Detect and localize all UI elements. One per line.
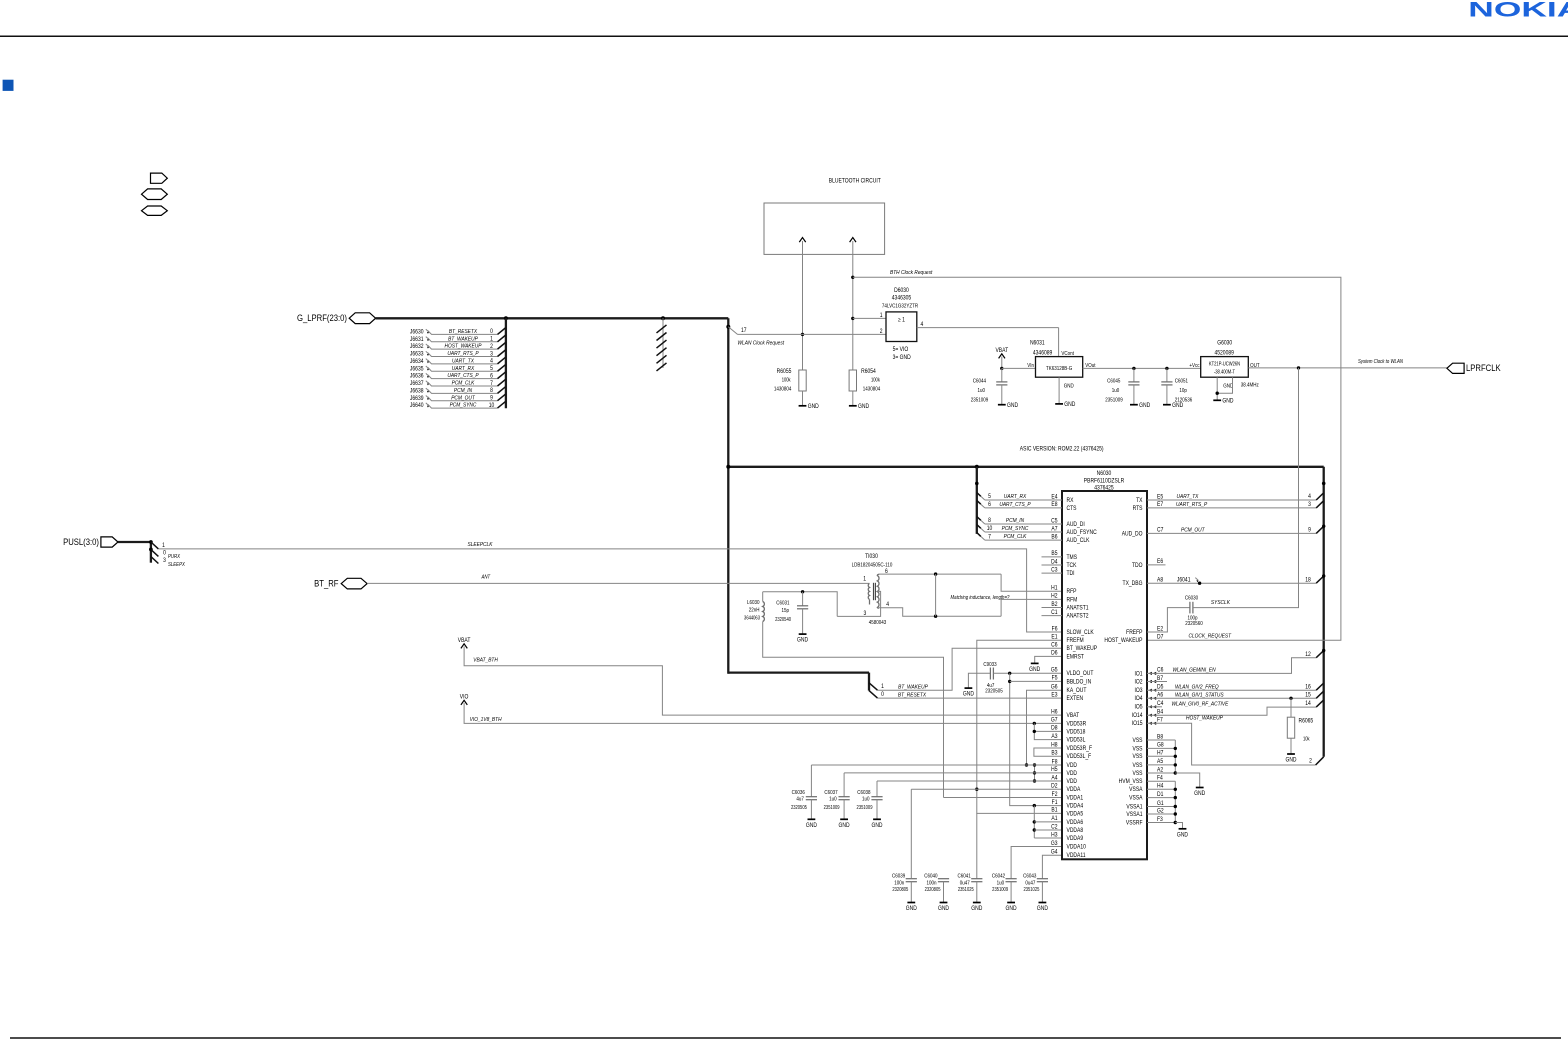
wire BT_RESETX (bit0) to EXTEN (E3) xyxy=(878,697,1063,699)
svg-text:R6065: R6065 xyxy=(1299,718,1314,725)
svg-text:E8: E8 xyxy=(1051,502,1057,509)
svg-text:VSS: VSS xyxy=(1133,762,1143,769)
wire G_LPRF ripper vertical bus xyxy=(505,318,507,408)
svg-text:VSS: VSS xyxy=(1133,754,1143,761)
svg-text:HOST_WAKEUP: HOST_WAKEUP xyxy=(1104,638,1142,645)
svg-text:PBRF6110DZSLR: PBRF6110DZSLR xyxy=(1084,478,1124,485)
svg-text:D7: D7 xyxy=(1157,634,1163,641)
wire VDD53R/VDD518/VDD53L bracket xyxy=(1034,723,1062,739)
svg-text:6: 6 xyxy=(988,502,991,509)
svg-text:EXTEN: EXTEN xyxy=(1067,696,1084,703)
svg-text:GND: GND xyxy=(938,906,949,913)
wire BTH Clock Request to CLOCK_REQUEST (D7) xyxy=(851,276,854,279)
svg-text:IO5: IO5 xyxy=(1134,704,1142,711)
svg-text:CLOCK_REQUEST: CLOCK_REQUEST xyxy=(1188,633,1231,640)
svg-text:ANATST1: ANATST1 xyxy=(1067,605,1089,612)
svg-text:1: 1 xyxy=(881,684,884,691)
svg-text:G_LPRF(23:0): G_LPRF(23:0) xyxy=(297,312,347,323)
svg-text:GND: GND xyxy=(1007,402,1018,409)
svg-text:BT_RESETX: BT_RESETX xyxy=(449,329,477,336)
wire TDO stub (E6) xyxy=(1147,564,1166,566)
pin C5 AUD_DI xyxy=(985,523,1062,525)
wire G_LPRF bus top horizontal (y=467) xyxy=(728,466,1323,468)
ground below R6054 xyxy=(849,405,857,407)
ground below N6031 xyxy=(1055,403,1063,405)
svg-text:CTS: CTS xyxy=(1067,505,1077,512)
arrow into BT block (right) xyxy=(850,238,856,243)
svg-text:VDDA11: VDDA11 xyxy=(1067,853,1086,860)
wire bus entries vertical at x=977 xyxy=(976,467,978,534)
svg-text:VDDA8: VDDA8 xyxy=(1067,828,1084,835)
svg-text:5= VIO: 5= VIO xyxy=(893,346,909,353)
svg-text:D2: D2 xyxy=(1051,783,1057,790)
wire matching network left shunt xyxy=(935,574,937,616)
svg-text:VIn: VIn xyxy=(1027,363,1034,370)
svg-text:BLUETOOTH CIRCUIT: BLUETOOTH CIRCUIT xyxy=(829,178,882,185)
svg-text:AUD_CLK: AUD_CLK xyxy=(1067,538,1090,545)
wire UART_TX to bus bit 4 xyxy=(1147,499,1316,501)
svg-text:System Clock to WLAN: System Clock to WLAN xyxy=(1358,359,1403,366)
wire FREFM (E1) to VDDA rows xyxy=(977,640,1062,813)
svg-text:F1: F1 xyxy=(1052,800,1058,807)
ground below C9033 xyxy=(965,687,973,689)
svg-text:VDDA5: VDDA5 xyxy=(1067,811,1084,818)
transformer open stub (unused pin) xyxy=(869,599,871,604)
svg-text:KA_OUT: KA_OUT xyxy=(1067,688,1087,695)
pin C1 ANATST2 xyxy=(1042,615,1063,617)
ground below C6042 xyxy=(1007,902,1015,904)
svg-text:1: 1 xyxy=(863,576,866,583)
svg-text:VDD518: VDD518 xyxy=(1067,729,1086,736)
svg-text:GND: GND xyxy=(1006,906,1017,913)
svg-text:HOST_WAKEUP: HOST_WAKEUP xyxy=(445,343,482,350)
svg-text:10: 10 xyxy=(987,526,993,533)
svg-text:VDDA9: VDDA9 xyxy=(1067,836,1084,843)
svg-text:LDB18204505C-110: LDB18204505C-110 xyxy=(852,562,893,569)
svg-text:RFM: RFM xyxy=(1067,597,1078,604)
svg-text:VSS: VSS xyxy=(1133,738,1143,745)
svg-text:UART_RX: UART_RX xyxy=(452,365,475,372)
svg-text:R6054: R6054 xyxy=(861,369,876,376)
svg-text:4520089: 4520089 xyxy=(1214,350,1233,357)
pin E4 RX xyxy=(985,499,1062,501)
svg-text:EMRST: EMRST xyxy=(1067,654,1085,661)
svg-text:VSSRF: VSSRF xyxy=(1126,820,1143,827)
svg-text:C5: C5 xyxy=(1051,518,1057,525)
svg-text:VBAT_BTH: VBAT_BTH xyxy=(473,657,498,664)
wire BT block right arrow down through BTH/pin1 junctions to R6054 xyxy=(852,241,854,370)
svg-text:IO1: IO1 xyxy=(1134,671,1142,678)
svg-text:J6635: J6635 xyxy=(410,366,424,373)
svg-text:BT_WAKEUP: BT_WAKEUP xyxy=(898,684,928,691)
bus entry bit 7 PCM_CLK xyxy=(977,533,981,537)
svg-text:3: 3 xyxy=(490,351,493,358)
svg-text:D6030: D6030 xyxy=(894,287,909,294)
svg-text:C6041: C6041 xyxy=(958,873,971,880)
svg-text:2320540: 2320540 xyxy=(775,617,791,622)
wire IO1 WLAN_GEMINI_EN to bus bit 12 xyxy=(1147,658,1316,674)
svg-text:GND: GND xyxy=(1029,667,1040,674)
pin E8 CTS xyxy=(985,507,1062,509)
wire VDD row H5 from C6037 xyxy=(844,772,1062,774)
wire C6039 riser to VDDA row xyxy=(910,789,912,878)
svg-text:9: 9 xyxy=(1308,527,1311,534)
bus entry bit 5 UART_RX xyxy=(977,493,981,497)
svg-text:LPRFCLK: LPRFCLK xyxy=(1466,362,1501,373)
wire VDDA10 (G3) from C6042 xyxy=(1011,847,1062,879)
svg-text:VDD: VDD xyxy=(1067,779,1078,786)
svg-text:NOKIA: NOKIA xyxy=(1468,0,1568,22)
svg-text:7: 7 xyxy=(988,534,991,541)
wire WLAN Clock Request (bus bit 17) xyxy=(728,327,737,335)
svg-text:10p: 10p xyxy=(1179,387,1187,394)
svg-text:VSSA: VSSA xyxy=(1129,795,1143,802)
svg-text:WLAN_GIV2_FREQ: WLAN_GIV2_FREQ xyxy=(1175,684,1219,691)
svg-text:B2: B2 xyxy=(1051,601,1057,608)
svg-text:2351009: 2351009 xyxy=(1105,397,1123,404)
wire VDD row F8 from C6036 xyxy=(811,764,1062,766)
svg-text:GND: GND xyxy=(1172,402,1183,409)
svg-text:C6031: C6031 xyxy=(776,600,789,607)
capacitor C6045 1u0 xyxy=(1133,368,1135,382)
svg-text:0: 0 xyxy=(490,329,493,336)
svg-text:C6036: C6036 xyxy=(792,790,805,797)
svg-text:GND: GND xyxy=(1037,906,1048,913)
svg-text:14: 14 xyxy=(1305,701,1311,708)
capacitor C6042 1u0 xyxy=(1006,878,1017,880)
svg-text:TK63128B-G: TK63128B-G xyxy=(1046,365,1072,372)
wire L6030 bottom to C6040/VDDA1 vertical xyxy=(763,622,944,798)
svg-text:PCM_SYNC: PCM_SYNC xyxy=(1002,526,1029,533)
wire G_LPRF bus right vertical (x=1324) xyxy=(1323,467,1325,757)
svg-text:HVM_VSS: HVM_VSS xyxy=(1119,779,1143,786)
wire IO14 HOST_WAKEUP to bus bit 14 xyxy=(1147,707,1316,715)
wire BT_WAKEUP (bit1) to pin C6 xyxy=(878,648,1063,690)
wire VDD53R_F/VDD53L_F bracket xyxy=(1034,748,1062,756)
svg-text:2320505: 2320505 xyxy=(985,688,1003,695)
wire VDD row A4 from C6038 xyxy=(877,780,1062,782)
svg-text:1: 1 xyxy=(880,312,883,319)
svg-text:GND: GND xyxy=(1139,402,1150,409)
wire BBLDO_IN row xyxy=(1010,680,1062,682)
svg-text:GND: GND xyxy=(808,404,819,411)
svg-text:2320505: 2320505 xyxy=(791,805,807,810)
svg-text:B6: B6 xyxy=(1051,534,1057,541)
pin bidirectional marker xyxy=(1149,714,1157,717)
svg-text:UART_CTS_P: UART_CTS_P xyxy=(999,502,1031,509)
wire transformer pin3 to L6030/C6031 node xyxy=(763,591,881,616)
wire matching top to RFP (H1) xyxy=(1001,574,1062,591)
svg-text:Matching inductance, length=?: Matching inductance, length=? xyxy=(951,595,1010,602)
svg-text:4: 4 xyxy=(1308,494,1311,501)
ground below C6037 xyxy=(840,818,848,820)
svg-text:1430804: 1430804 xyxy=(863,386,881,393)
wire VDDA1 row (F2) from C6040 xyxy=(944,797,1063,799)
svg-text:UART_RTS_P: UART_RTS_P xyxy=(447,351,479,358)
svg-text:2320560: 2320560 xyxy=(1185,621,1203,628)
page bottom border line xyxy=(10,1037,1561,1039)
svg-text:VDDA4: VDDA4 xyxy=(1067,803,1084,810)
svg-text:J6634: J6634 xyxy=(410,359,424,366)
wire G6030 GND pins to ground xyxy=(1217,377,1232,400)
svg-text:F6: F6 xyxy=(1052,626,1058,633)
capacitor C6030 100p (series) xyxy=(1189,602,1191,614)
ground below C6045 xyxy=(1130,404,1138,406)
svg-text:6: 6 xyxy=(490,373,493,380)
legend input-port pentagon symbol xyxy=(151,173,168,183)
pin bidirectional marker xyxy=(1149,672,1157,675)
svg-text:VDD53R: VDD53R xyxy=(1067,721,1087,728)
svg-text:C9033: C9033 xyxy=(983,662,996,669)
svg-text:PCM_CLK: PCM_CLK xyxy=(1004,534,1027,541)
wire VDDA bracket F1..H3 xyxy=(1033,806,1035,838)
svg-text:N6031: N6031 xyxy=(1030,340,1045,347)
svg-text:SLEEPCLK: SLEEPCLK xyxy=(467,542,492,549)
ground below C6041 xyxy=(973,902,981,904)
svg-text:B1: B1 xyxy=(1051,807,1057,814)
svg-text:BT_RESETX: BT_RESETX xyxy=(898,692,926,699)
svg-text:2351009: 2351009 xyxy=(857,805,873,810)
svg-text:RFP: RFP xyxy=(1067,589,1077,596)
svg-text:VDDA: VDDA xyxy=(1067,787,1081,794)
svg-text:ASIC VERSION: ROM2.22 (4376425: ASIC VERSION: ROM2.22 (4376425) xyxy=(1020,446,1104,453)
svg-text:GND: GND xyxy=(858,404,869,411)
wire VDD bracket F8/H5/A4 xyxy=(1034,765,1036,781)
svg-text:VSSA: VSSA xyxy=(1129,787,1143,794)
svg-text:VLDO_OUT: VLDO_OUT xyxy=(1067,671,1094,678)
capacitor C6031 15p xyxy=(802,592,804,606)
svg-text:BT_RF: BT_RF xyxy=(314,578,338,589)
svg-text:UART_CTS_P: UART_CTS_P xyxy=(447,373,479,380)
wire PUSL bus stub xyxy=(118,541,151,543)
wire VDDA8 row xyxy=(1034,829,1062,831)
bus entry bit 1 SLEEPCLK xyxy=(151,542,159,549)
page top border line xyxy=(0,35,1568,37)
ground below C6043 xyxy=(1039,902,1047,904)
svg-text:2351009: 2351009 xyxy=(992,886,1008,891)
svg-text:1: 1 xyxy=(490,336,493,343)
svg-text:9: 9 xyxy=(490,395,493,402)
wire gate pin1 from junction xyxy=(851,317,854,320)
svg-text:J6631: J6631 xyxy=(410,336,424,343)
svg-text:TX: TX xyxy=(1136,498,1143,505)
svg-text:12: 12 xyxy=(1305,651,1311,658)
wire UART_RTS_P to bus bit 3 xyxy=(1147,507,1316,509)
svg-text:≥ 1: ≥ 1 xyxy=(898,317,905,324)
svg-text:AUD_DI: AUD_DI xyxy=(1067,522,1086,529)
svg-text:22nH: 22nH xyxy=(749,607,760,614)
svg-text:N6030: N6030 xyxy=(1097,471,1112,478)
svg-text:UART_RTS_P: UART_RTS_P xyxy=(1176,502,1208,509)
wire oscillator OUT / System Clock to WLAN xyxy=(1248,367,1447,369)
wire VDDA9 row xyxy=(1034,837,1062,839)
blue section square xyxy=(3,80,14,91)
svg-text:GND: GND xyxy=(906,906,917,913)
svg-text:1430804: 1430804 xyxy=(774,386,792,393)
pin bidirectional marker xyxy=(1149,705,1157,708)
svg-text:0: 0 xyxy=(163,550,166,557)
svg-text:3644063: 3644063 xyxy=(744,615,760,620)
svg-text:4: 4 xyxy=(490,358,493,365)
svg-text:A3: A3 xyxy=(1051,734,1057,741)
svg-text:GND: GND xyxy=(797,637,808,644)
svg-text:J6638: J6638 xyxy=(410,388,424,395)
ground below C6031 xyxy=(799,633,807,635)
bus entry bit 3 SLEEPX xyxy=(151,557,159,564)
svg-text:GND: GND xyxy=(1064,383,1074,390)
svg-text:VSS: VSS xyxy=(1133,771,1143,778)
svg-text:PCM_IN: PCM_IN xyxy=(1006,518,1024,525)
svg-text:-38.400M-T: -38.400M-T xyxy=(1214,369,1235,374)
svg-text:2351025: 2351025 xyxy=(1023,886,1039,891)
svg-text:J6636: J6636 xyxy=(410,373,424,380)
svg-text:VDD53L_F: VDD53L_F xyxy=(1067,754,1092,761)
svg-text:15p: 15p xyxy=(781,608,789,615)
svg-text:4346305: 4346305 xyxy=(892,295,911,302)
svg-text:IO4: IO4 xyxy=(1134,696,1142,703)
svg-text:10: 10 xyxy=(489,403,495,410)
svg-text:WLAN_GEMINI_EN: WLAN_GEMINI_EN xyxy=(1173,667,1216,674)
svg-text:GND: GND xyxy=(1222,398,1233,405)
node LPRFCLK output port xyxy=(1447,363,1464,373)
svg-text:G4: G4 xyxy=(1051,849,1058,856)
capacitor C6036 4u7 xyxy=(810,765,812,797)
svg-text:H3: H3 xyxy=(1051,832,1057,839)
pin A7 AUD_FSYNC xyxy=(985,531,1062,533)
wire EMRST (D6) to ground xyxy=(1035,656,1062,663)
svg-text:TMS: TMS xyxy=(1067,554,1078,561)
wire R6054 to ground xyxy=(852,391,854,406)
svg-text:VDD53R_F: VDD53R_F xyxy=(1067,746,1093,753)
svg-text:GND: GND xyxy=(1194,791,1205,798)
svg-text:UART_TX: UART_TX xyxy=(452,358,474,365)
svg-text:74LVC1G32YZTR: 74LVC1G32YZTR xyxy=(882,303,919,310)
wire IO2 stub (B7) xyxy=(1147,681,1167,683)
svg-text:8: 8 xyxy=(988,518,991,525)
svg-text:2351009: 2351009 xyxy=(824,805,840,810)
svg-text:H1: H1 xyxy=(1051,585,1057,592)
svg-text:16: 16 xyxy=(1305,684,1311,691)
ground below C6051 xyxy=(1163,404,1171,406)
wire VBAT to N6031 VIn xyxy=(1002,367,1036,369)
svg-text:C6051: C6051 xyxy=(1175,378,1188,385)
svg-text:C1: C1 xyxy=(1051,610,1057,617)
svg-text:HOST_WAKEUP: HOST_WAKEUP xyxy=(1186,715,1223,722)
svg-text:VCont: VCont xyxy=(1061,351,1074,358)
svg-text:PCM_SYNC: PCM_SYNC xyxy=(450,402,477,409)
svg-text:BT_WAKEUP: BT_WAKEUP xyxy=(448,336,478,343)
svg-text:A7: A7 xyxy=(1051,526,1057,533)
svg-text:A4: A4 xyxy=(1051,775,1057,782)
svg-text:1u0: 1u0 xyxy=(829,796,837,803)
svg-text:E3: E3 xyxy=(1051,692,1057,699)
wire KA_OUT (G6) down to VDD row xyxy=(1027,690,1063,765)
svg-text:L6030: L6030 xyxy=(747,599,760,606)
svg-text:PURX: PURX xyxy=(168,554,181,561)
svg-text:BT_WAKEUP: BT_WAKEUP xyxy=(1067,646,1098,653)
svg-text:TX_DBG: TX_DBG xyxy=(1123,581,1143,588)
svg-text:SYSCLK: SYSCLK xyxy=(1211,600,1230,607)
resistor R6054 100k xyxy=(849,370,856,391)
svg-text:D4: D4 xyxy=(1051,559,1057,566)
svg-text:RX: RX xyxy=(1067,498,1074,505)
svg-text:PCM_CLK: PCM_CLK xyxy=(452,380,475,387)
svg-text:FREFP: FREFP xyxy=(1126,630,1143,637)
svg-text:C6030: C6030 xyxy=(1185,595,1198,602)
pin D4 TCK xyxy=(1042,564,1063,566)
capacitor C6043 0u47 xyxy=(1037,878,1048,880)
svg-text:8: 8 xyxy=(490,388,493,395)
svg-text:VBAT: VBAT xyxy=(1067,713,1080,720)
pin bidirectional marker xyxy=(1149,697,1157,700)
svg-text:WLAN_GIV1_STATUS: WLAN_GIV1_STATUS xyxy=(1175,692,1224,699)
svg-text:WLAN_GIV0_RF_ACTIVE: WLAN_GIV0_RF_ACTIVE xyxy=(1172,701,1229,708)
svg-text:IO3: IO3 xyxy=(1134,688,1142,695)
bluetooth circuit block box xyxy=(764,203,885,254)
svg-text:C6040: C6040 xyxy=(924,873,937,880)
svg-text:4: 4 xyxy=(886,601,889,608)
svg-text:IO2: IO2 xyxy=(1134,679,1142,686)
capacitor C6039 100n xyxy=(906,878,917,880)
svg-text:J6640: J6640 xyxy=(410,403,424,410)
svg-text:C3: C3 xyxy=(1051,567,1057,574)
capacitor C6040 100n xyxy=(938,878,949,880)
ground below C6039 xyxy=(907,902,915,904)
legend output-port hexagon symbol xyxy=(142,206,168,215)
svg-text:TCK: TCK xyxy=(1067,563,1077,570)
svg-text:GND: GND xyxy=(1064,402,1075,409)
bus entry bit 10 PCM_SYNC xyxy=(977,525,981,529)
svg-text:C6045: C6045 xyxy=(1107,378,1120,385)
wire C6041 riser xyxy=(976,813,978,878)
wire IO5 stub (C4) xyxy=(1147,706,1162,708)
svg-text:G6: G6 xyxy=(1051,684,1058,691)
svg-text:AUD_DO: AUD_DO xyxy=(1122,531,1143,538)
resistor R6065 10k pulldown xyxy=(1290,698,1292,717)
capacitor C6044 1u0 xyxy=(1001,368,1003,382)
svg-text:4: 4 xyxy=(920,321,923,328)
capacitor C6037 1u0 xyxy=(843,773,845,797)
svg-text:17: 17 xyxy=(741,328,747,335)
wire VDDA6 row xyxy=(1034,821,1062,823)
svg-text:0: 0 xyxy=(881,692,884,699)
svg-text:VSS: VSS xyxy=(1133,746,1143,753)
wire IO4 WLAN_GIV1_STATUS to bus bit 15 xyxy=(1147,697,1316,699)
svg-text:GND: GND xyxy=(963,691,974,698)
svg-text:TDI: TDI xyxy=(1067,571,1075,578)
svg-text:C6044: C6044 xyxy=(973,378,986,385)
capacitor C6038 1u0 xyxy=(876,781,878,797)
svg-text:GND: GND xyxy=(806,823,817,830)
svg-text:SLEEPX: SLEEPX xyxy=(168,562,186,569)
svg-text:J6637: J6637 xyxy=(410,381,424,388)
svg-text:GND: GND xyxy=(871,823,882,830)
ground below R6065 xyxy=(1287,753,1295,755)
wire G_LPRF bus left vertical (x=728) xyxy=(727,318,729,673)
wire R6055 to ground xyxy=(802,391,804,406)
pin B2 ANATST1 xyxy=(1042,607,1063,609)
svg-text:FREFM: FREFM xyxy=(1067,638,1085,645)
svg-text:1u0: 1u0 xyxy=(1112,387,1120,394)
svg-text:F5: F5 xyxy=(1052,675,1058,682)
svg-text:VSSA1: VSSA1 xyxy=(1126,812,1142,819)
wire transformer pin6 to matching network top xyxy=(880,573,1001,575)
wire TX_DBG to bus bit 18 / testpoint J6041 xyxy=(1147,582,1316,584)
arrow into BT block (left) xyxy=(799,238,805,243)
ground below C6036 xyxy=(808,818,816,820)
svg-text:4u7: 4u7 xyxy=(796,796,804,803)
wire VLDO_OUT (G5) through C9033 junctions xyxy=(994,672,1062,674)
